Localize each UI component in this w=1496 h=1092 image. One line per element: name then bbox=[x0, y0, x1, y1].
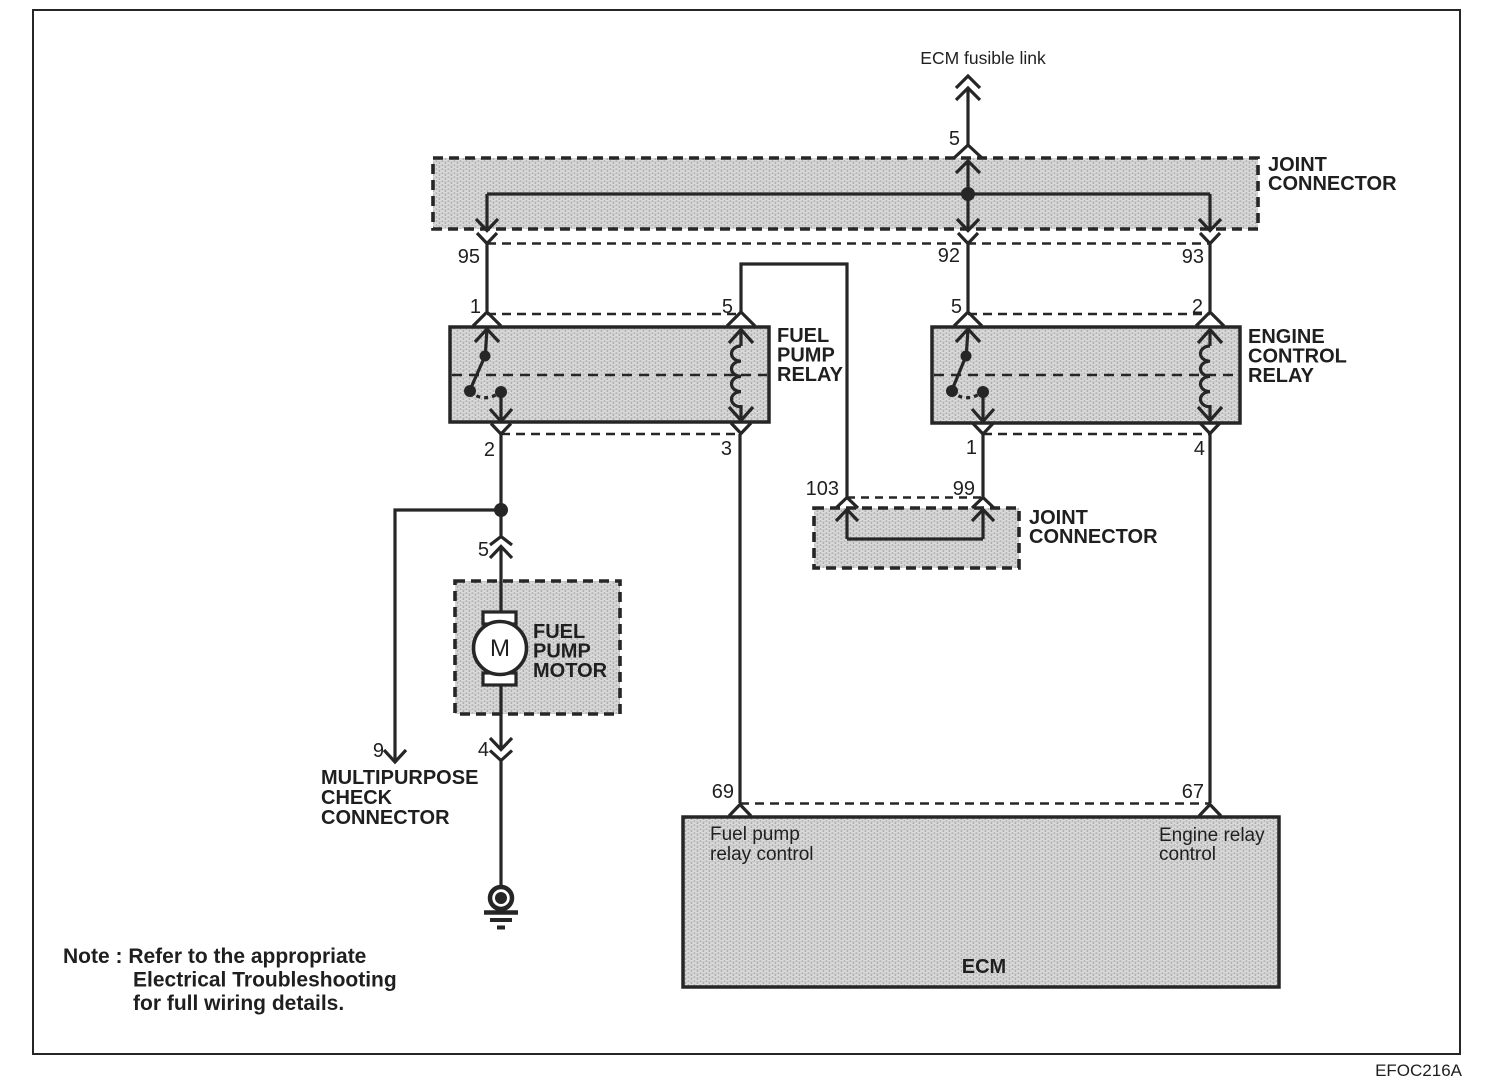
svg-text:ECM fusible link: ECM fusible link bbox=[920, 48, 1046, 68]
relay coil (fuel pump relay) bbox=[727, 312, 755, 434]
wire: engine control relay pin4 to ECM pin67 bbox=[1208, 434, 1211, 803]
connector row line above fuel pump relay bbox=[487, 313, 741, 315]
node: JC1 internal bus junction bbox=[961, 187, 975, 201]
svg-text:93: 93 bbox=[1182, 246, 1204, 268]
svg-text:95: 95 bbox=[458, 246, 480, 268]
svg-text:Electrical Troubleshooting: Electrical Troubleshooting bbox=[133, 969, 397, 992]
relay switch (engine control relay) bbox=[946, 351, 989, 422]
joint connector JC2 (middle) bbox=[814, 508, 1019, 568]
svg-text:control: control bbox=[1159, 844, 1216, 865]
svg-text:1: 1 bbox=[470, 296, 481, 318]
svg-text:2: 2 bbox=[484, 439, 495, 461]
wire: JC1 pin92 to engine control relay pin5 bbox=[966, 244, 969, 311]
svg-text:92: 92 bbox=[938, 245, 960, 267]
terminal pin 5 engine control relay bbox=[954, 312, 982, 352]
wire: engine control relay pin1 to JC2 pin99 bbox=[981, 434, 984, 497]
svg-text:1: 1 bbox=[966, 437, 977, 459]
fuel pump relay box bbox=[450, 327, 769, 422]
svg-text:for full wiring details.: for full wiring details. bbox=[133, 992, 344, 1015]
wire: fuel pump relay pin5 to JC2 pin103 bbox=[741, 264, 847, 497]
wire: motor to in-line connector 4 bbox=[499, 685, 502, 749]
svg-text:CONNECTOR: CONNECTOR bbox=[1029, 526, 1158, 548]
wire: JC1 pin93 to engine control relay pin2 bbox=[1208, 244, 1211, 311]
harness connector line above JC2 bbox=[847, 496, 983, 498]
svg-text:MULTIPURPOSE: MULTIPURPOSE bbox=[321, 767, 478, 789]
fuel pump motor box bbox=[455, 581, 620, 714]
wire: fuel pump relay pin2 down bbox=[499, 434, 502, 510]
svg-text:CHECK: CHECK bbox=[321, 787, 393, 809]
svg-text:67: 67 bbox=[1182, 781, 1204, 803]
terminal pair pin 5 of JC1 (female above, male arrow inside) bbox=[954, 145, 982, 194]
svg-text:CONNECTOR: CONNECTOR bbox=[1268, 173, 1397, 195]
fuel pump motor M symbol bbox=[474, 612, 527, 685]
svg-text:5: 5 bbox=[949, 128, 960, 150]
engine control relay box bbox=[932, 327, 1240, 423]
terminal pin 2 fuel pump relay (male arrow down + female) bbox=[490, 409, 512, 434]
terminal pin 1 fuel pump relay (female + male arrow up) bbox=[473, 312, 501, 352]
in-line connector 4 (below fuel pump motor) bbox=[490, 738, 512, 761]
terminal pin 99 of JC2 bbox=[972, 498, 994, 540]
svg-text:9: 9 bbox=[373, 740, 384, 762]
wire: branch to multipurpose check connector bbox=[395, 510, 501, 760]
connector row line above engine control relay bbox=[968, 313, 1210, 315]
terminal pin 69 of ECM bbox=[729, 805, 751, 817]
svg-text:Engine relay: Engine relay bbox=[1159, 825, 1265, 846]
svg-text:Note : Refer to the appropriat: Note : Refer to the appropriate bbox=[63, 945, 366, 968]
terminal pin 93 of JC1 bbox=[1199, 194, 1221, 244]
connector row line below engine control relay bbox=[983, 433, 1210, 435]
svg-text:MOTOR: MOTOR bbox=[533, 660, 608, 682]
wire: JC1 internal bus bbox=[487, 192, 1210, 195]
svg-text:ECM: ECM bbox=[962, 956, 1006, 978]
svg-text:M: M bbox=[490, 635, 510, 662]
wire: JC1 pin95 to fuel pump relay pin1 bbox=[485, 244, 488, 311]
svg-text:4: 4 bbox=[1194, 438, 1205, 460]
wire: JC2 internal link bbox=[847, 537, 983, 540]
svg-text:103: 103 bbox=[806, 478, 839, 500]
terminal pin 95 of JC1 (male arrow down + female below) bbox=[476, 194, 498, 244]
arrow into multipurpose check connector bbox=[384, 750, 406, 762]
power feed arrow (to ECM fusible link) bbox=[956, 76, 980, 146]
wire: into motor bbox=[499, 581, 502, 613]
terminal pin 1 engine control relay bbox=[972, 409, 994, 434]
in-line connector 5 (above fuel pump motor) bbox=[490, 510, 512, 581]
relay switch (fuel pump relay) bbox=[464, 351, 507, 422]
svg-text:relay control: relay control bbox=[710, 844, 814, 865]
terminal pin 103 of JC2 bbox=[836, 498, 858, 540]
harness connector line under JC1 bbox=[487, 242, 1210, 244]
svg-text:5: 5 bbox=[951, 296, 962, 318]
svg-text:RELAY: RELAY bbox=[777, 364, 844, 386]
terminal pin 67 of ECM bbox=[1199, 805, 1221, 817]
svg-text:69: 69 bbox=[712, 781, 734, 803]
svg-text:CONNECTOR: CONNECTOR bbox=[321, 807, 450, 829]
wire: connector 4 to ground bbox=[499, 760, 502, 886]
svg-text:4: 4 bbox=[478, 739, 489, 761]
relay coil (engine control relay) bbox=[1196, 312, 1224, 434]
svg-text:Fuel pump: Fuel pump bbox=[710, 824, 800, 845]
ground G1 bbox=[484, 887, 518, 928]
wire: fuel pump relay pin3 to ECM pin69 bbox=[738, 434, 741, 803]
svg-text:EFOC216A: EFOC216A bbox=[1375, 1061, 1463, 1080]
terminal pin 92 of JC1 bbox=[957, 194, 979, 244]
ECM box bbox=[683, 817, 1279, 987]
connector row line below fuel pump relay bbox=[501, 433, 740, 435]
svg-text:RELAY: RELAY bbox=[1248, 365, 1315, 387]
svg-text:5: 5 bbox=[478, 539, 489, 561]
harness connector line above ECM bbox=[740, 802, 1210, 804]
node: branch to multipurpose check connector bbox=[494, 503, 508, 517]
joint connector JC1 (top) bbox=[433, 158, 1258, 229]
svg-text:3: 3 bbox=[721, 438, 732, 460]
